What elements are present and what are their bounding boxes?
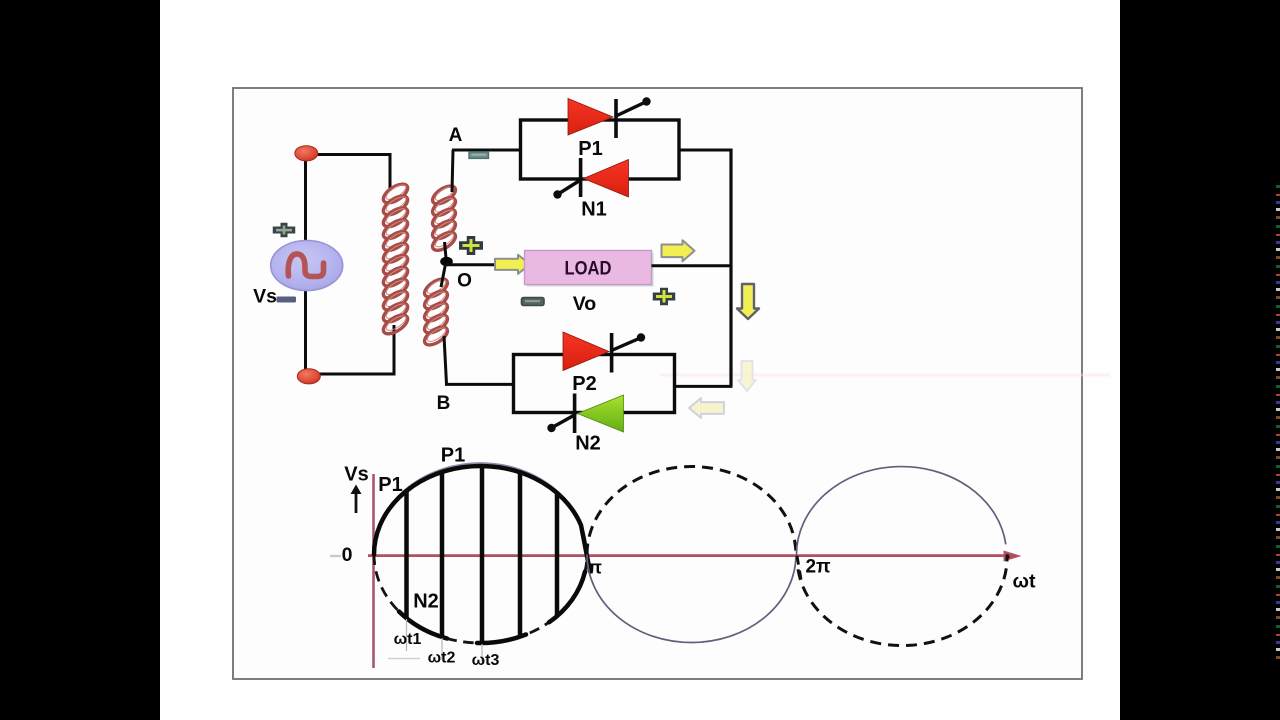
hump3 dashed lower [798,555,1010,646]
AC source Vs [271,241,343,291]
svg-text:P1: P1 [578,138,602,160]
right bus wire [729,149,732,387]
minus sign at A [469,152,489,159]
wire P1 pair to right bus [679,149,733,152]
switching line 4 [518,472,523,636]
wire primary loop left [304,153,307,377]
hump3 thin upper [797,467,1006,555]
svg-text:Vs: Vs [253,286,277,308]
plus sign at source [273,223,296,238]
svg-text:0: 0 [342,544,353,566]
wire P2 pair to right bus [675,385,733,388]
transformer secondary top coil [430,183,459,254]
video white background [160,0,1120,720]
arrow into LOAD [495,255,530,274]
switching line 1 [404,491,409,618]
minus sign at Vo [522,298,545,306]
guide line below wt2 [441,638,443,660]
svg-text:ωt: ωt [1013,571,1036,593]
svg-text:LOAD: LOAD [565,259,612,280]
switching line 5 [555,493,560,616]
svg-text:A: A [449,125,463,146]
hump1 lower dashed envelope [374,555,587,644]
terminal dot bottom [297,369,320,384]
slide frame border [233,88,1082,679]
svg-text:Vs: Vs [344,464,368,486]
thyristor pair P1 N1 frame [521,120,680,179]
wire center tap to bottom coil [441,264,446,287]
thyristor P2 [563,332,645,373]
svg-text:P1: P1 [378,474,402,496]
svg-text:2π: 2π [805,557,831,578]
svg-text:O: O [457,271,472,292]
waveform vertical axis [372,474,375,668]
wire O to LOAD [447,263,525,266]
plus sign at LOAD output [653,288,676,306]
hump1 thick lower segment 2 [477,635,526,644]
svg-text:N2: N2 [413,591,439,613]
hump2 dashed upper [587,467,796,555]
thyristor pair P2 N2 frame [514,355,675,413]
svg-text:ωt3: ωt3 [472,652,500,669]
transformer primary coil [380,180,410,337]
hump1 thick lower segment 1 [399,612,447,639]
hump1 thin envelope [374,463,587,555]
svg-text:P1: P1 [441,445,465,467]
arrow out of LOAD [662,240,695,261]
guide line below wt1 [406,619,408,651]
svg-text:ωt1: ωt1 [394,631,422,648]
wire A to P1 pair [452,149,521,152]
wire primary loop bottom [308,325,394,374]
faint highlight band [660,374,1110,377]
center tap node O [440,257,453,267]
transition dashed at 2pi [795,541,802,582]
axis arrowhead [1004,551,1022,562]
wire LOAD to right bus [652,264,733,267]
svg-text:Vo: Vo [573,293,597,315]
wire bottom coil to B [444,336,447,384]
guide line below wt3 [481,644,483,662]
transformer secondary bottom coil [422,276,451,349]
waveform horizontal axis [368,554,1006,557]
svg-text:ωt2: ωt2 [428,650,456,667]
thyristor P1 [568,97,651,138]
svg-text:N1: N1 [581,199,607,221]
terminal dot top [295,146,318,161]
switching line 2 [440,472,445,637]
plus sign at O [459,236,483,255]
tick left of 0 [330,555,341,557]
hump1 thick lower segment 3 [549,572,585,623]
faint arrow down lower bus [738,361,756,391]
wire primary loop top [305,155,390,192]
svg-text:P2: P2 [572,373,596,395]
arrow down right bus [737,284,759,319]
hump2 thin lower [587,555,796,643]
thyristor N2 [547,394,623,434]
thyristor N1 [553,158,628,199]
hump1 thick output curve upper [374,466,590,572]
faint arrow left at N2 [689,398,724,418]
wire secondary top to A [452,150,453,192]
svg-text:B: B [437,393,451,414]
up arrow [351,485,362,514]
wire top coil to center tap [445,242,447,258]
svg-text:N2: N2 [575,433,601,455]
LOAD box [525,251,654,287]
wire B to P2 pair [445,383,514,386]
switching line 3 [480,466,485,643]
guide tick at wt1 label [388,658,420,660]
minus dash at Vs [277,297,297,303]
